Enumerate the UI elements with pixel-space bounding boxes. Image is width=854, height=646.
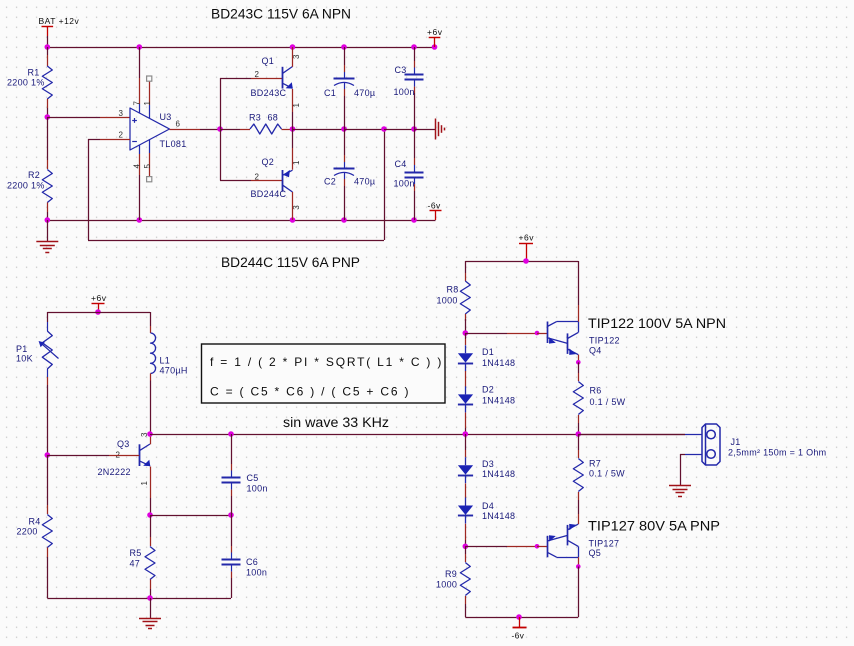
svg-text:TIP127 80V 5A PNP: TIP127 80V 5A PNP	[588, 519, 720, 535]
resistor R7 0.1 5W	[578, 434, 580, 450]
node junction +6v oscillator	[95, 309, 101, 315]
svg-text:R9: R9	[445, 569, 457, 579]
svg-text:4: 4	[133, 164, 142, 169]
svg-text:L1: L1	[160, 356, 171, 366]
node junction bottom bus at Q2 collector	[290, 217, 296, 223]
wire top bus +12v	[47, 47, 434, 49]
svg-text:68: 68	[268, 112, 279, 122]
svg-text:Q4: Q4	[589, 346, 602, 356]
ground earth mid rail	[435, 119, 437, 140]
svg-text:1N4148: 1N4148	[482, 511, 515, 521]
capacitor C6 100n	[231, 515, 233, 546]
wire Q5 emitter	[578, 514, 580, 524]
node junction bottom bus at C4	[411, 217, 417, 223]
svg-text:100n: 100n	[394, 179, 415, 189]
node junction top bus at R1	[45, 44, 51, 50]
svg-text:+6v: +6v	[519, 233, 535, 243]
node junction top bus at Q1 collector	[290, 44, 296, 50]
resistor R1	[47, 47, 49, 55]
node junction Q4 emitter R6	[576, 360, 581, 365]
svg-text:1: 1	[140, 481, 149, 486]
svg-text:6: 6	[176, 120, 181, 129]
wire Q4 base rail	[465, 333, 507, 335]
diode D3 1N4148	[465, 434, 467, 450]
wire J1 pin2 to ground	[680, 454, 685, 456]
svg-text:1N4148: 1N4148	[482, 469, 515, 479]
svg-text:BD244C 115V 6A PNP: BD244C 115V 6A PNP	[221, 255, 360, 271]
resistor R3	[220, 129, 240, 131]
ground GND1	[47, 220, 49, 241]
svg-text:1000: 1000	[436, 579, 457, 589]
wire Q1 collector	[292, 47, 294, 67]
wire Q4 emitter	[578, 355, 580, 363]
svg-text:D2: D2	[482, 385, 494, 395]
resistor R4 2200	[47, 455, 49, 505]
svg-text:2,5mm² 150m = 1 Ohm: 2,5mm² 150m = 1 Ohm	[728, 447, 826, 457]
svg-text:TIP122: TIP122	[589, 336, 620, 346]
resistor R6 0.1 5W	[578, 362, 580, 373]
supply +6v top right	[429, 37, 441, 39]
wire output stage top rail	[465, 261, 578, 263]
svg-text:2: 2	[255, 70, 260, 79]
svg-text:2: 2	[255, 173, 260, 182]
node junction bottom bus at C2	[341, 217, 347, 223]
svg-text:BD244C: BD244C	[251, 189, 287, 199]
svg-text:-6v: -6v	[428, 201, 442, 211]
svg-text:sin wave 33 KHz: sin wave 33 KHz	[283, 415, 389, 430]
resistor R9 1000	[465, 546, 467, 554]
svg-text:C = ( C5 * C6 ) / ( C5 + C6 ): C = ( C5 * C6 ) / ( C5 + C6 )	[210, 385, 410, 399]
svg-text:Q3: Q3	[117, 439, 130, 449]
wire base pin Q1	[251, 78, 283, 80]
potentiometer P1 10K	[47, 312, 49, 322]
supply +6v oscillator	[92, 303, 105, 305]
node junction Q3 emitter	[147, 512, 153, 518]
svg-text:0.1 / 5W: 0.1 / 5W	[589, 468, 625, 478]
supply -6v top section	[435, 211, 437, 221]
svg-text:5: 5	[143, 164, 152, 169]
svg-text:R8: R8	[447, 284, 459, 294]
svg-text:BAT +12v: BAT +12v	[39, 16, 80, 26]
node junction oscillator rail L1	[147, 431, 153, 437]
svg-text:D4: D4	[482, 501, 494, 511]
svg-text:7: 7	[133, 101, 142, 106]
transistor Q1 BD243C	[282, 67, 284, 89]
svg-text:3: 3	[292, 54, 301, 59]
node A divider midpoint	[45, 114, 51, 120]
capacitor C4 100n	[414, 129, 416, 158]
svg-text:P1: P1	[16, 344, 28, 354]
resistor R8 1000	[465, 261, 467, 273]
wire mid rail to ground	[414, 129, 435, 131]
svg-text:47: 47	[130, 559, 141, 569]
svg-text:+6v: +6v	[427, 27, 443, 37]
wire Q3 collector	[150, 434, 152, 444]
transistor Q2 BD244C	[282, 170, 284, 192]
wire P1 to base rail	[47, 377, 49, 385]
svg-text:1: 1	[292, 160, 301, 165]
svg-text:1: 1	[292, 103, 301, 108]
svg-text:10K: 10K	[16, 354, 33, 364]
wire R1 to node A	[47, 108, 49, 117]
svg-text:2N2222: 2N2222	[98, 467, 131, 477]
svg-text:R7: R7	[589, 458, 601, 468]
wire mid rail to feedback	[344, 129, 384, 131]
svg-text:R5: R5	[130, 548, 142, 558]
node junction Q4 base pin	[535, 331, 540, 336]
wire oscillator bottom rail	[47, 598, 231, 600]
node junction bottom bus at opamp V-	[137, 217, 143, 223]
capacitor C3 100n	[414, 47, 416, 61]
svg-text:2: 2	[119, 130, 124, 139]
svg-text:f = 1 / ( 2 * PI * SQRT( L1 *: f = 1 / ( 2 * PI * SQRT( L1 * C ) )	[210, 355, 443, 369]
wire oscillator top rail	[47, 312, 150, 314]
svg-text:470µ: 470µ	[354, 88, 375, 98]
resistor R2	[47, 117, 49, 160]
svg-text:100n: 100n	[247, 483, 268, 493]
pin 1 offset null open	[149, 82, 151, 106]
node junction -6v bottom rail	[516, 614, 522, 620]
svg-text:2200: 2200	[17, 527, 38, 537]
transistor Q3 2N2222	[139, 444, 141, 466]
node junction top bus at C1	[341, 44, 347, 50]
supply -6v output stage	[519, 617, 521, 628]
ground GND2	[150, 598, 152, 618]
node junction bottom rail ground	[147, 595, 153, 601]
wire emitter rail to caps	[150, 515, 231, 517]
node junction D4 R9 Q5 base	[463, 544, 469, 550]
node junction top bus at opamp V+	[137, 44, 143, 50]
svg-text:D1: D1	[482, 347, 494, 357]
diode D1 1N4148	[465, 333, 467, 339]
wire output to bases	[220, 78, 222, 181]
svg-text:2200 1%: 2200 1%	[7, 180, 45, 190]
svg-text:C4: C4	[395, 159, 407, 169]
node junction R3 emitters	[290, 126, 296, 132]
node junction mid rail C3 C4	[411, 126, 417, 132]
node junction Q5 collector	[576, 564, 581, 569]
svg-text:Q2: Q2	[262, 157, 275, 167]
wire Q4 collector	[578, 261, 580, 305]
wire Q5 base rail	[465, 546, 507, 548]
wire Q1 emitter	[292, 89, 294, 112]
wire base pin Q2	[251, 180, 283, 182]
supply BAT +12v	[42, 26, 54, 28]
wire node A to opamp pin 3	[47, 117, 100, 119]
node junction P1 Q3 base	[45, 452, 51, 458]
capacitor C1 470u	[344, 47, 346, 65]
svg-text:Q1: Q1	[262, 56, 275, 66]
svg-text:J1: J1	[731, 437, 741, 447]
svg-text:Q5: Q5	[589, 548, 602, 558]
wire Q3 base	[47, 455, 109, 457]
node junction Q5 base pin	[535, 544, 540, 549]
node junction top bus at C3	[411, 44, 417, 50]
svg-text:2200 1%: 2200 1%	[7, 78, 45, 88]
svg-text:0.1 / 5W: 0.1 / 5W	[590, 397, 626, 407]
formula box	[202, 344, 446, 403]
svg-text:100n: 100n	[394, 87, 415, 97]
svg-text:-6v: -6v	[512, 631, 525, 641]
svg-text:D3: D3	[482, 459, 494, 469]
wire opamp output pin 6	[170, 129, 201, 131]
wire Q2 collector	[292, 192, 294, 220]
connector J1	[685, 434, 702, 436]
svg-text:R1: R1	[28, 67, 40, 77]
svg-text:C5: C5	[247, 473, 259, 483]
svg-text:C6: C6	[246, 557, 258, 567]
svg-text:TIP127: TIP127	[589, 539, 620, 549]
svg-text:R6: R6	[590, 386, 602, 396]
svg-text:BD243C 115V 6A NPN: BD243C 115V 6A NPN	[211, 6, 351, 22]
svg-text:470µH: 470µH	[160, 366, 188, 376]
capacitor C5 100n	[231, 434, 233, 464]
svg-text:1000: 1000	[437, 296, 458, 306]
capacitor C2 470u	[344, 129, 346, 155]
pin 5 offset null open	[149, 140, 151, 154]
svg-text:C3: C3	[395, 65, 407, 75]
wire D4 to Q5 base rail	[465, 524, 467, 540]
diode D2 1N4148	[465, 371, 467, 387]
svg-text:1N4148: 1N4148	[482, 358, 515, 368]
svg-text:+6v: +6v	[91, 293, 107, 303]
wire Q5 collector	[578, 557, 580, 566]
inductor L1 470uH	[150, 312, 152, 326]
wire oscillator output rail	[150, 434, 685, 436]
wire BAT to top bus	[47, 36, 49, 47]
svg-text:R3: R3	[249, 112, 261, 122]
node junction rail at C5	[228, 431, 234, 437]
transistor Q4 TIP122 darlington	[547, 322, 549, 344]
supply +6v output stage	[519, 243, 533, 245]
svg-text:3: 3	[292, 205, 301, 210]
wire feedback pin2 loop	[100, 139, 130, 141]
node junction mid rail feedback	[381, 126, 387, 132]
node junction rail diodes	[463, 431, 469, 437]
svg-text:100n: 100n	[246, 568, 267, 578]
svg-text:C2: C2	[324, 177, 336, 187]
wire mid rail to C3 C4	[384, 129, 414, 131]
wire mid rail to C1 C2	[293, 129, 345, 131]
node junction C5 C6 midpoint	[228, 512, 234, 518]
svg-text:1: 1	[143, 101, 152, 106]
op-amp U3 TL081	[130, 108, 170, 150]
wire J1 output	[578, 434, 685, 436]
node junction top bus at +6v	[432, 44, 438, 50]
node output junction	[217, 126, 223, 132]
wire Q3 emitter	[150, 467, 152, 499]
svg-text:C1: C1	[324, 88, 336, 98]
svg-text:470µ: 470µ	[354, 177, 375, 187]
node junction bottom bus at R2	[45, 217, 51, 223]
svg-text:3: 3	[119, 109, 124, 118]
resistor R5 47	[150, 515, 152, 537]
node junction output R6 R7 J1	[576, 431, 582, 437]
pin 7 V+ of U3	[139, 47, 141, 78]
node junction R8 D1 Q4 base	[463, 330, 469, 336]
wire output stage bottom rail	[465, 617, 578, 619]
transistor Q5 TIP127 darlington	[547, 536, 549, 558]
svg-text:U3: U3	[160, 112, 172, 122]
node junction mid rail C1 C2	[341, 126, 347, 132]
svg-text:R4: R4	[29, 517, 41, 527]
svg-text:BD243C: BD243C	[251, 88, 287, 98]
svg-text:R2: R2	[28, 170, 40, 180]
wire bottom bus 0v	[47, 220, 435, 222]
pin 4 V- of U3	[139, 145, 141, 154]
wire D2 to rail	[465, 413, 467, 429]
diode D4 1N4148	[465, 483, 467, 497]
svg-text:TL081: TL081	[160, 139, 187, 149]
ground GND3 at J1	[669, 485, 691, 487]
svg-text:TIP122 100V 5A NPN: TIP122 100V 5A NPN	[588, 316, 726, 332]
wire Q2 emitter	[292, 129, 294, 148]
svg-text:1N4148: 1N4148	[482, 396, 515, 406]
node junction +6v output stage	[523, 258, 529, 264]
